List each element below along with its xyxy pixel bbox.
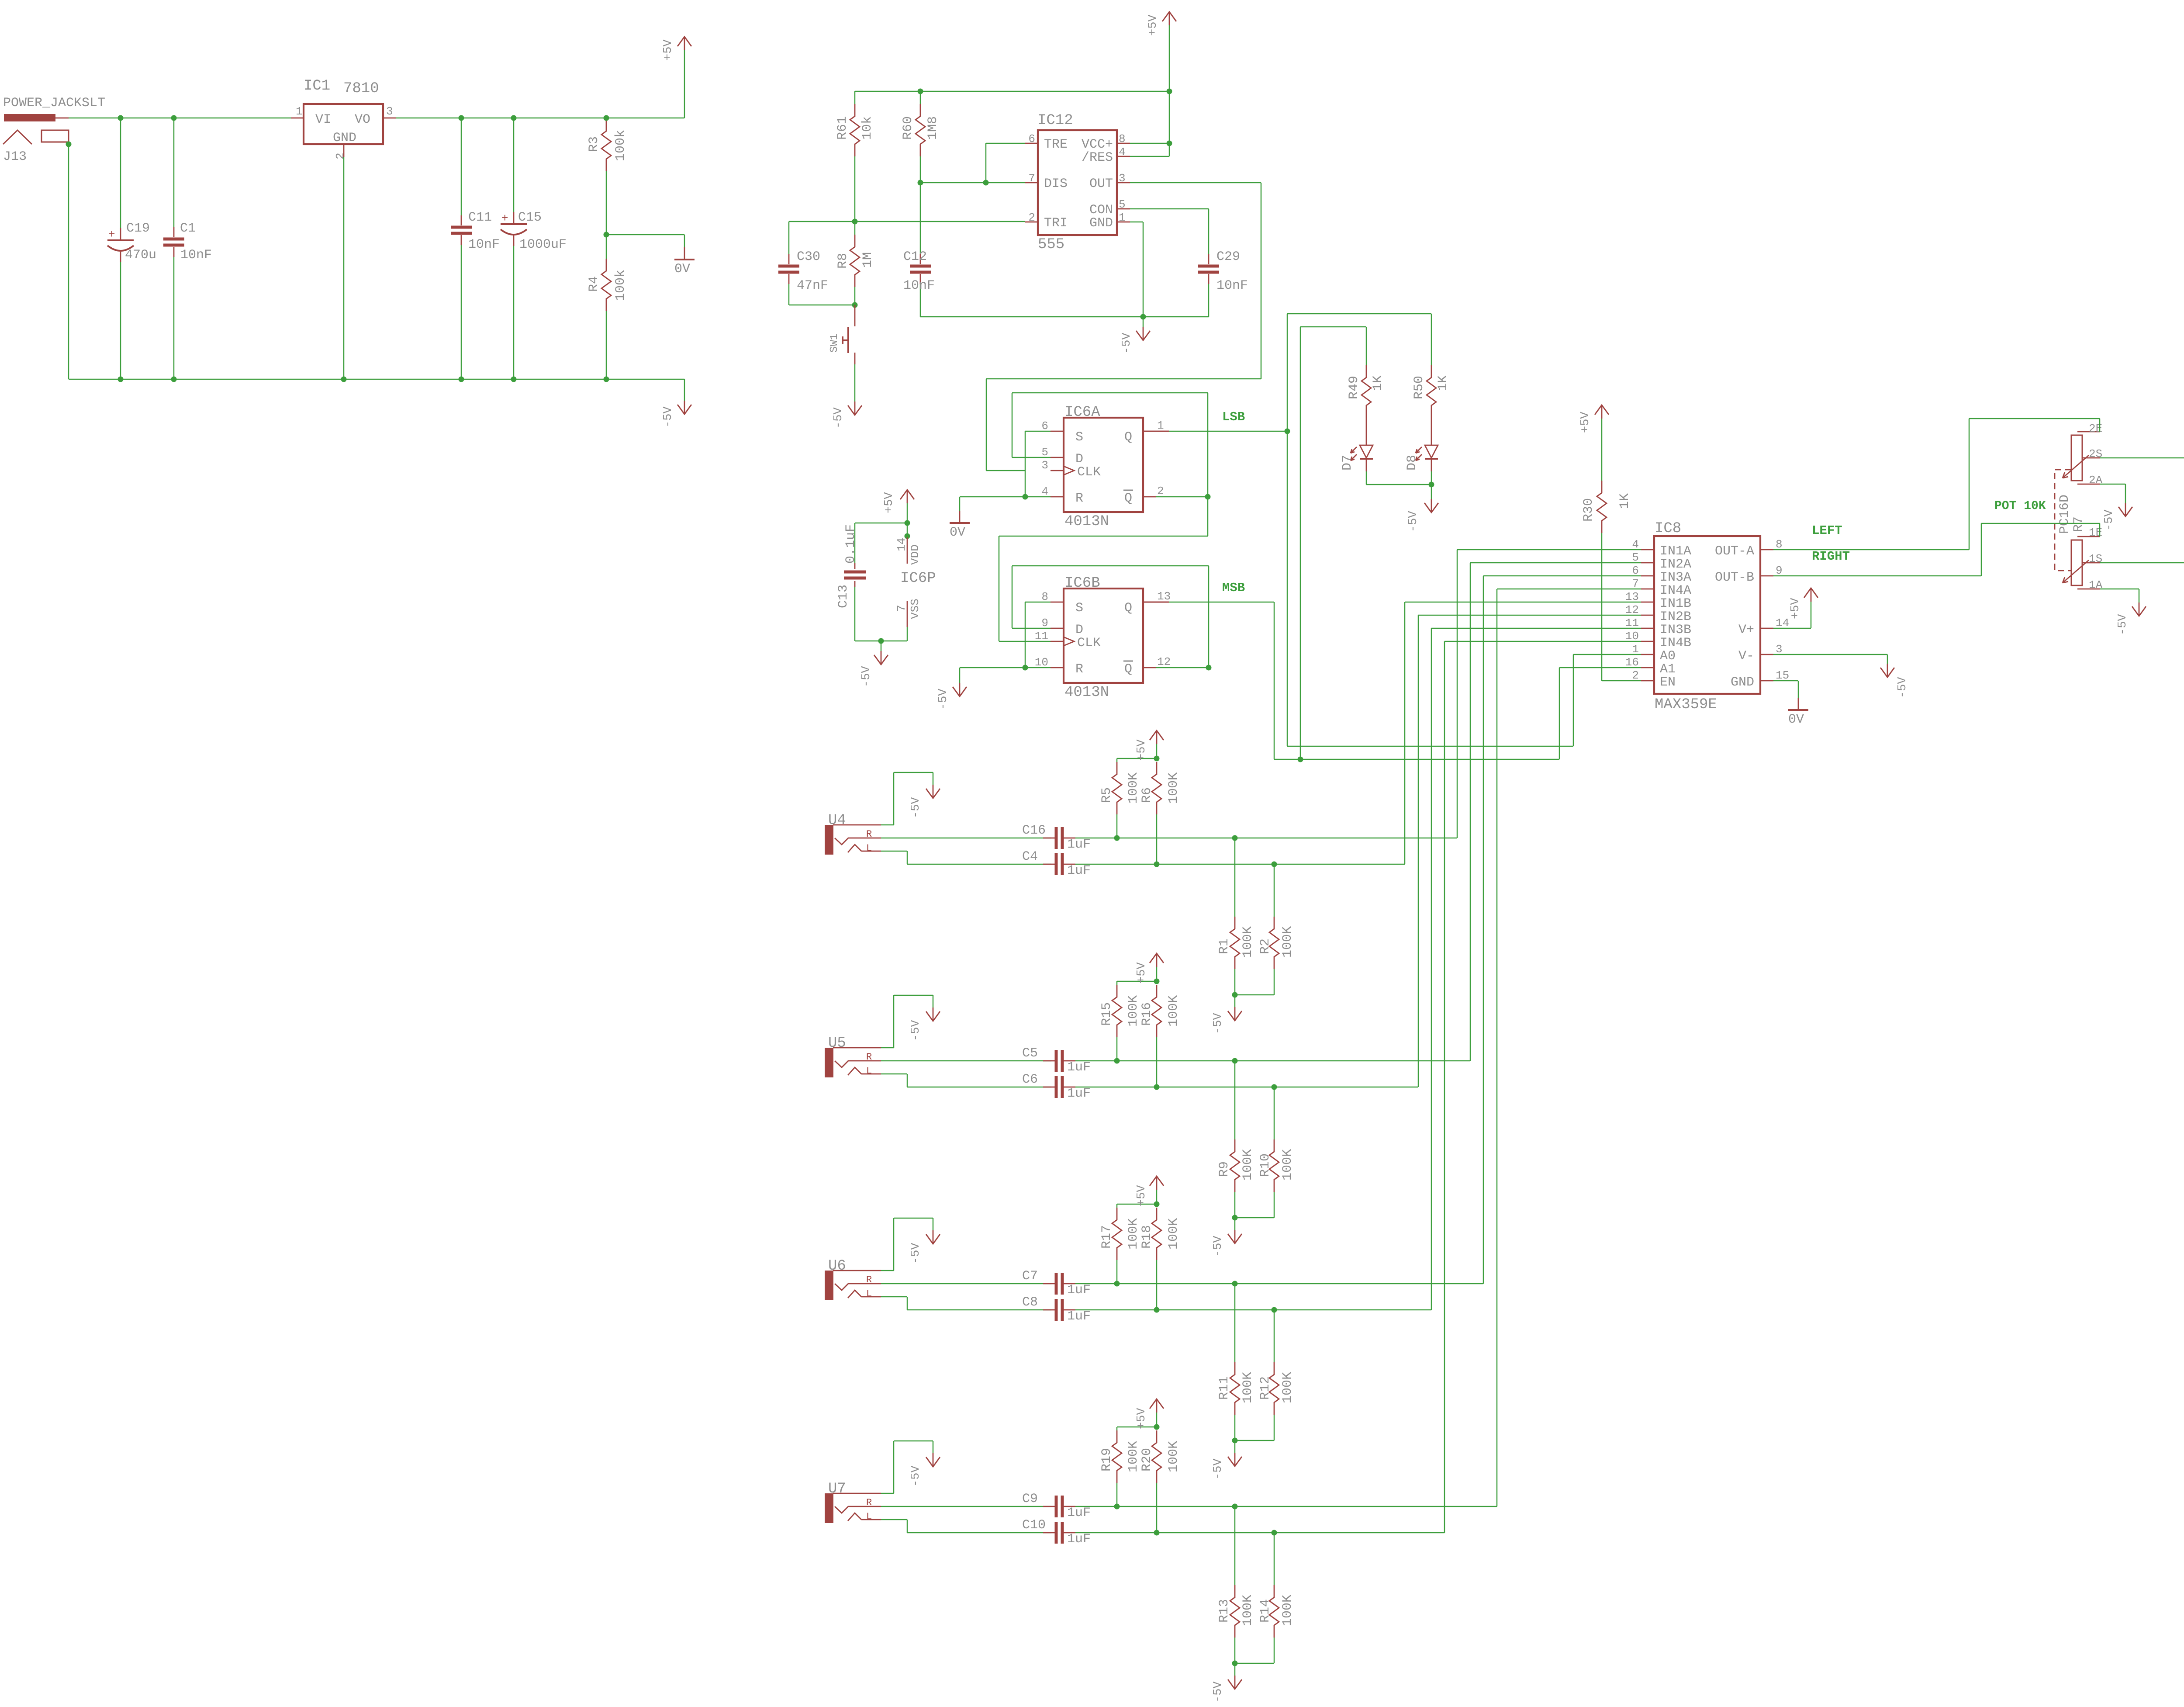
node R3 R4 mid (604, 232, 609, 238)
svg-text:VDD: VDD (909, 544, 922, 565)
connector U6 input jack (825, 1271, 833, 1300)
svg-text:+: + (108, 228, 115, 241)
resistor R9 100K (1234, 1061, 1236, 1139)
svg-text:100K: 100K (1126, 1441, 1141, 1472)
svg-text:1000uF: 1000uF (519, 237, 567, 252)
wire R19 top to +5V (1117, 1427, 1157, 1428)
wire 2S to C25 (2100, 457, 2184, 459)
svg-text:D: D (1075, 452, 1083, 467)
resistor R50 1K (1431, 314, 1432, 365)
svg-text:PC16D: PC16D (2057, 495, 2072, 534)
svg-text:VCC+: VCC+ (1082, 137, 1113, 152)
power -5V arrow U4 (933, 785, 934, 798)
capacitor C4 1uF (1055, 853, 1058, 875)
svg-text:Q: Q (1124, 601, 1132, 616)
power +5V arrow R5R6 (1156, 744, 1158, 758)
svg-text:L: L (866, 1511, 872, 1522)
svg-text:7: 7 (895, 605, 908, 612)
svg-text:L: L (866, 843, 872, 854)
svg-text:R19: R19 (1099, 1448, 1114, 1472)
resistor R60 1M8 (920, 91, 921, 104)
svg-text:C29: C29 (1216, 249, 1240, 264)
node +5V R5R6 (1154, 756, 1160, 762)
svg-text:CON: CON (1089, 203, 1113, 218)
svg-text:R61: R61 (835, 116, 850, 140)
svg-text:-5V: -5V (1896, 677, 1909, 698)
timer IC12 555 (1038, 130, 1117, 235)
ground 0V IC8 (1798, 698, 1799, 710)
wire IN4B feed (1444, 641, 1641, 642)
power -5V arrow R13R14 (1234, 1663, 1236, 1676)
svg-text:VI: VI (315, 112, 331, 127)
node DIS R60 (918, 180, 923, 186)
svg-text:-5V: -5V (1212, 1458, 1225, 1480)
wire IN2B feed (1418, 615, 1641, 616)
wire VIN top rail (69, 118, 291, 119)
wire IN1B feed (1405, 602, 1641, 603)
wire LED cathode bus (1366, 471, 1367, 485)
power +5V arrow R19R20 (1156, 1413, 1158, 1427)
svg-text:R7: R7 (2071, 516, 2086, 532)
connector J13 POWER_JACKSLT (4, 114, 55, 121)
svg-text:1uF: 1uF (1067, 1086, 1091, 1101)
svg-text:47nF: 47nF (797, 278, 828, 293)
svg-text:GND: GND (1089, 216, 1113, 231)
resistor R20 100K (1152, 1430, 1161, 1483)
wire LSB net (1143, 431, 1169, 432)
wire 2A to -5V (2100, 484, 2125, 485)
wire bottom -5V rail (69, 379, 684, 380)
svg-text:2: 2 (1028, 211, 1035, 224)
svg-text:13: 13 (1625, 590, 1639, 603)
power -5V arrow IC8 (1887, 664, 1888, 677)
connector U4 input jack (825, 825, 833, 855)
wire R3-R4 midpoint to 0V (606, 234, 684, 235)
svg-text:4: 4 (1041, 485, 1048, 498)
power +5V arrow R30 (1601, 405, 1603, 419)
svg-text:3: 3 (1119, 172, 1126, 185)
wire IC1 GND drop (343, 157, 345, 379)
wire IN2A feed (1470, 562, 1641, 564)
svg-text:R5: R5 (1099, 787, 1114, 803)
power -5V arrow IC6P (881, 641, 882, 651)
wire A0 routing from LSB (1287, 746, 1573, 747)
power -5V arrow U5 (933, 1008, 934, 1021)
flip-flop IC6A 4013N (1064, 418, 1143, 512)
wire MSB net (1143, 602, 1169, 603)
svg-text:U5: U5 (828, 1035, 846, 1052)
power +5V arrow R17R18 (1156, 1190, 1158, 1204)
svg-text:R11: R11 (1217, 1376, 1232, 1400)
svg-text:+5V: +5V (1135, 739, 1148, 761)
svg-text:R1: R1 (1217, 938, 1232, 954)
svg-text:R3: R3 (587, 136, 601, 152)
svg-text:0V: 0V (1788, 712, 1804, 727)
node R9 top (1232, 1058, 1238, 1064)
svg-text:R18: R18 (1140, 1225, 1154, 1249)
svg-text:C30: C30 (797, 249, 820, 264)
wire TRI net (789, 221, 1025, 222)
resistor R12 100K (1274, 1310, 1275, 1362)
node R14 top (1272, 1530, 1277, 1536)
svg-text:100K: 100K (1241, 1595, 1255, 1626)
wire LSB top to R50 (1287, 313, 1431, 315)
svg-text:VO: VO (355, 112, 370, 127)
svg-text:Q: Q (1124, 430, 1132, 445)
node +5V R17R18 (1154, 1201, 1160, 1207)
svg-text:100K: 100K (1280, 1149, 1295, 1181)
wire OUT net to flipflop clocks (1130, 182, 1261, 184)
svg-text:C19: C19 (126, 221, 150, 236)
svg-text:100K: 100K (1241, 1149, 1255, 1181)
connector U5 input jack (825, 1048, 833, 1077)
power pin IC6P VSS (907, 601, 908, 627)
wire 1S to C26 (2100, 562, 2184, 564)
node LSB (1285, 429, 1290, 434)
power -5V arrow SW1 (854, 402, 856, 415)
svg-text:16: 16 (1625, 656, 1639, 669)
wire GND pin1 drop (1130, 222, 1143, 223)
svg-text:L: L (866, 1066, 872, 1077)
svg-text:TRI: TRI (1044, 216, 1068, 231)
connector U7 input jack (825, 1493, 833, 1523)
svg-text:-5V: -5V (1120, 332, 1133, 354)
wire C10 out row (1075, 1532, 1444, 1534)
resistor R19 100K (1116, 1427, 1118, 1430)
node R19 bottom (1114, 1504, 1120, 1510)
wire R13R14 bottom bus (1235, 1663, 1274, 1664)
resistor R5 100K (1116, 758, 1118, 762)
svg-text:C11: C11 (468, 210, 492, 225)
resistor R1 100K (1234, 838, 1236, 917)
wire J13 ground drop (68, 144, 69, 379)
node C19 bottom (118, 377, 124, 382)
capacitor C12 10nF (920, 183, 921, 254)
capacitor C29 10nF (1198, 265, 1219, 268)
wire 1A to -5V (2100, 589, 2139, 590)
svg-text:1uF: 1uF (1067, 1532, 1091, 1547)
svg-text:100K: 100K (1241, 1372, 1255, 1403)
capacitor C6 1uF (1055, 1076, 1058, 1098)
svg-text:A1: A1 (1660, 662, 1676, 677)
node R3 top (604, 115, 609, 121)
node IC6P vdd1 (905, 520, 910, 526)
svg-text:+5V: +5V (1789, 598, 1802, 619)
svg-text:R: R (1075, 491, 1083, 506)
svg-text:100K: 100K (1280, 926, 1295, 958)
svg-text:C12: C12 (903, 249, 927, 264)
node R13 top (1232, 1504, 1238, 1510)
svg-text:4013N: 4013N (1064, 513, 1109, 530)
svg-text:100K: 100K (1280, 1372, 1295, 1403)
node VCC pin8 (1167, 141, 1172, 146)
node DIS branch (983, 180, 989, 186)
svg-text:1uF: 1uF (1067, 1506, 1091, 1520)
svg-text:R8: R8 (836, 253, 850, 269)
resistor R61 10k (854, 91, 856, 104)
node C15 bottom (511, 377, 517, 382)
svg-text:OUT-A: OUT-A (1715, 544, 1754, 559)
svg-text:14: 14 (895, 538, 908, 551)
node R10 top (1272, 1084, 1277, 1090)
node IC6B R (1023, 665, 1028, 671)
wire IC6A D feedback (1012, 457, 1051, 458)
wire IC6B D feedback (1012, 628, 1051, 629)
node R6 bottom (1154, 862, 1160, 867)
LED D8 (1431, 418, 1432, 445)
resistor R11 100K (1234, 1284, 1236, 1362)
svg-text:C6: C6 (1022, 1072, 1038, 1087)
wire MSB routing to A1 (1274, 602, 1275, 759)
svg-text:100K: 100K (1166, 772, 1181, 804)
wire 555 +5V top rail (855, 91, 1169, 92)
svg-text:IN1B: IN1B (1660, 596, 1691, 611)
svg-text:10k: 10k (860, 116, 875, 140)
svg-text:R9: R9 (1217, 1161, 1232, 1177)
node R17 bottom (1114, 1281, 1120, 1287)
resistor R16 100K (1152, 985, 1161, 1037)
svg-text:GND: GND (333, 131, 356, 145)
svg-text:D8: D8 (1405, 455, 1420, 471)
svg-text:IC6A: IC6A (1064, 404, 1100, 421)
wire IC6A Qbar to IC6B CLK (999, 536, 1208, 537)
power pin IC6P VDD (907, 537, 908, 564)
node R13 -5V (1232, 1661, 1238, 1666)
capacitor C10 1uF (1055, 1522, 1058, 1544)
svg-text:DIS: DIS (1044, 177, 1068, 191)
svg-text:1: 1 (1119, 211, 1126, 224)
svg-text:100K: 100K (1126, 772, 1141, 804)
svg-text:2A: 2A (2089, 474, 2103, 487)
potentiometer R7 PC16D section2 (2071, 435, 2082, 481)
svg-text:2: 2 (1157, 485, 1164, 498)
svg-text:-5V: -5V (1407, 511, 1420, 532)
svg-text:R12: R12 (1258, 1376, 1273, 1400)
wire C5 out row (1075, 1060, 1470, 1062)
resistor R14 100K (1274, 1533, 1275, 1585)
capacitor C8 1uF (1055, 1299, 1058, 1321)
ground 0V IC6A (959, 511, 961, 523)
svg-text:V+: V+ (1738, 623, 1754, 637)
resistor R17 100K (1116, 1204, 1118, 1208)
node VCC rail (1167, 89, 1172, 94)
svg-text:V-: V- (1738, 649, 1754, 664)
svg-text:8: 8 (1119, 132, 1126, 145)
power +5V arrow 555 (1169, 12, 1170, 25)
svg-text:2E: 2E (2089, 422, 2102, 435)
svg-text:VSS: VSS (909, 599, 922, 619)
svg-text:R14: R14 (1258, 1599, 1273, 1623)
wire R15 top to +5V (1117, 981, 1157, 982)
node C15 top (511, 115, 517, 121)
node R5 bottom (1114, 835, 1120, 841)
svg-text:+: + (501, 212, 508, 225)
svg-text:R: R (866, 1052, 872, 1063)
svg-text:10: 10 (1625, 630, 1639, 643)
svg-text:1K: 1K (1371, 375, 1386, 391)
svg-text:3: 3 (386, 105, 393, 118)
svg-text:R: R (866, 1274, 872, 1285)
wire pin8 VCC+ (1130, 143, 1169, 144)
wire U6 R row (881, 1283, 1051, 1285)
svg-text:12: 12 (1157, 655, 1171, 668)
svg-text:POT 10K: POT 10K (1994, 499, 2046, 513)
power -5V arrow IC6B (959, 683, 961, 696)
svg-text:5: 5 (1041, 446, 1048, 459)
svg-text:IN2A: IN2A (1660, 557, 1691, 572)
wire MSB vertical to R49 (1300, 327, 1301, 759)
power -5V arrow R9R10 (1234, 1218, 1236, 1230)
svg-text:-5V: -5V (909, 1243, 923, 1264)
power -5V arrow pot2 (2125, 503, 2126, 516)
power +5V arrow power section (684, 50, 685, 118)
svg-text:13: 13 (1157, 590, 1171, 603)
wire DIS to TRE (985, 143, 987, 183)
svg-text:3: 3 (1776, 643, 1783, 656)
svg-text:0V: 0V (674, 262, 690, 277)
node R1 -5V (1232, 992, 1238, 998)
svg-text:IN4A: IN4A (1660, 583, 1691, 598)
svg-text:L: L (866, 1288, 872, 1299)
svg-text:8: 8 (1776, 538, 1783, 551)
svg-text:+5V: +5V (1147, 14, 1160, 36)
svg-text:RIGHT: RIGHT (1812, 549, 1850, 564)
node IC6B Qbar (1206, 665, 1212, 671)
svg-text:R16: R16 (1140, 1002, 1154, 1026)
svg-text:C1: C1 (180, 221, 196, 236)
svg-text:C15: C15 (518, 210, 542, 225)
power +5V arrow IC8 (1811, 588, 1812, 602)
wire RIGHT to 1E (1981, 523, 1982, 576)
svg-text:9: 9 (1776, 564, 1783, 577)
node C19 top (118, 115, 124, 121)
svg-text:1: 1 (1157, 419, 1164, 432)
svg-text:6: 6 (1028, 132, 1035, 145)
power -5V arrow U6 (933, 1230, 934, 1244)
resistor R30 1K (1601, 419, 1603, 481)
svg-text:7810: 7810 (343, 80, 379, 97)
power -5V arrow U7 (933, 1453, 934, 1467)
node R20 bottom (1154, 1530, 1160, 1536)
svg-text:1K: 1K (1436, 375, 1451, 391)
svg-text:C5: C5 (1022, 1046, 1038, 1061)
node R2 top (1272, 862, 1277, 867)
node R18 bottom (1154, 1307, 1160, 1313)
svg-text:5: 5 (1632, 551, 1639, 564)
node IC6A R (1023, 494, 1028, 500)
wire IC6A R to 0V (960, 496, 1051, 498)
svg-text:+5V: +5V (662, 39, 675, 61)
regulator IC1 7810 (304, 104, 383, 144)
wire LEFT to 2E (1969, 419, 1970, 550)
capacitor C13 0.1uF (854, 523, 856, 563)
svg-text:+5V: +5V (1135, 1185, 1148, 1206)
node C1 top (171, 115, 177, 121)
svg-text:J13: J13 (3, 149, 27, 164)
svg-text:8: 8 (1041, 590, 1048, 603)
capacitor C7 1uF (1055, 1273, 1058, 1295)
svg-text:C8: C8 (1022, 1295, 1038, 1310)
resistor R13 100K (1234, 1506, 1236, 1585)
svg-text:1uF: 1uF (1067, 1283, 1091, 1298)
svg-text:-5V: -5V (909, 797, 923, 818)
capacitor C9 1uF (1055, 1496, 1058, 1517)
svg-text:R6: R6 (1140, 787, 1154, 803)
svg-text:1: 1 (296, 105, 303, 118)
svg-text:14: 14 (1776, 616, 1789, 630)
svg-text:LSB: LSB (1222, 410, 1245, 424)
svg-text:10nF: 10nF (903, 278, 935, 293)
svg-text:10nF: 10nF (468, 237, 500, 252)
wire V- to -5V (1773, 654, 1887, 655)
wire IC6A S-R tie (1025, 431, 1051, 432)
resistor R4 100k (606, 235, 607, 259)
wire IC6B S-R tie (1025, 602, 1051, 603)
svg-text:-5V: -5V (2103, 509, 2116, 531)
switch SW1 (854, 305, 856, 326)
svg-text:S: S (1075, 601, 1083, 616)
wire LSB vertical (1287, 314, 1288, 746)
svg-text:C16: C16 (1022, 823, 1046, 838)
wire pin4 /RES (1130, 156, 1169, 157)
svg-text:-5V: -5V (662, 406, 675, 428)
wire C6 out row (1075, 1087, 1418, 1088)
resistor R15 100K (1116, 981, 1118, 985)
svg-text:100K: 100K (1280, 1595, 1295, 1626)
svg-text:D: D (1075, 623, 1083, 637)
svg-text:100K: 100K (1166, 995, 1181, 1027)
svg-text:-5V: -5V (909, 1465, 923, 1487)
node R60 top (918, 89, 923, 94)
svg-text:IC8: IC8 (1655, 520, 1681, 537)
svg-text:100k: 100k (613, 130, 628, 161)
node 555 gnd (1140, 314, 1146, 320)
svg-text:U4: U4 (828, 812, 846, 829)
svg-text:11: 11 (1035, 630, 1048, 643)
wire IN4A feed (1497, 589, 1641, 590)
wire IN3A feed (1483, 575, 1641, 577)
power -5V arrow power section (684, 401, 685, 414)
svg-text:S: S (1075, 430, 1083, 445)
svg-text:-5V: -5V (1212, 1236, 1225, 1257)
wire C4 out row (1075, 864, 1405, 865)
wire R17 top to +5V (1117, 1204, 1157, 1205)
power -5V arrow R11R12 (1234, 1440, 1236, 1453)
svg-text:15: 15 (1776, 669, 1789, 682)
power -5V arrow pot1 (2139, 602, 2140, 616)
resistor R8 1M (854, 222, 856, 235)
wire LEFT out (1773, 549, 1969, 551)
svg-text:2S: 2S (2089, 447, 2102, 461)
wire C8 out row (1075, 1309, 1431, 1311)
wire IC6B R to -5V (960, 667, 1051, 668)
svg-text:100k: 100k (613, 270, 628, 301)
svg-text:+5V: +5V (1135, 962, 1148, 983)
node R8 bottom (852, 302, 858, 308)
wire U6 sleeve to -5V (881, 1270, 894, 1271)
node +5V R19R20 (1154, 1424, 1160, 1430)
svg-text:3: 3 (1041, 459, 1048, 472)
node IC6A Qbar (1205, 494, 1211, 500)
node LED -5V (1429, 482, 1434, 488)
svg-text:470u: 470u (125, 248, 156, 263)
node R1 top (1232, 835, 1238, 841)
svg-text:1E: 1E (2089, 526, 2102, 539)
svg-text:555: 555 (1038, 236, 1064, 253)
svg-text:/RES: /RES (1082, 150, 1113, 165)
node IC6P vss (878, 638, 884, 644)
svg-text:OUT-B: OUT-B (1715, 570, 1754, 585)
